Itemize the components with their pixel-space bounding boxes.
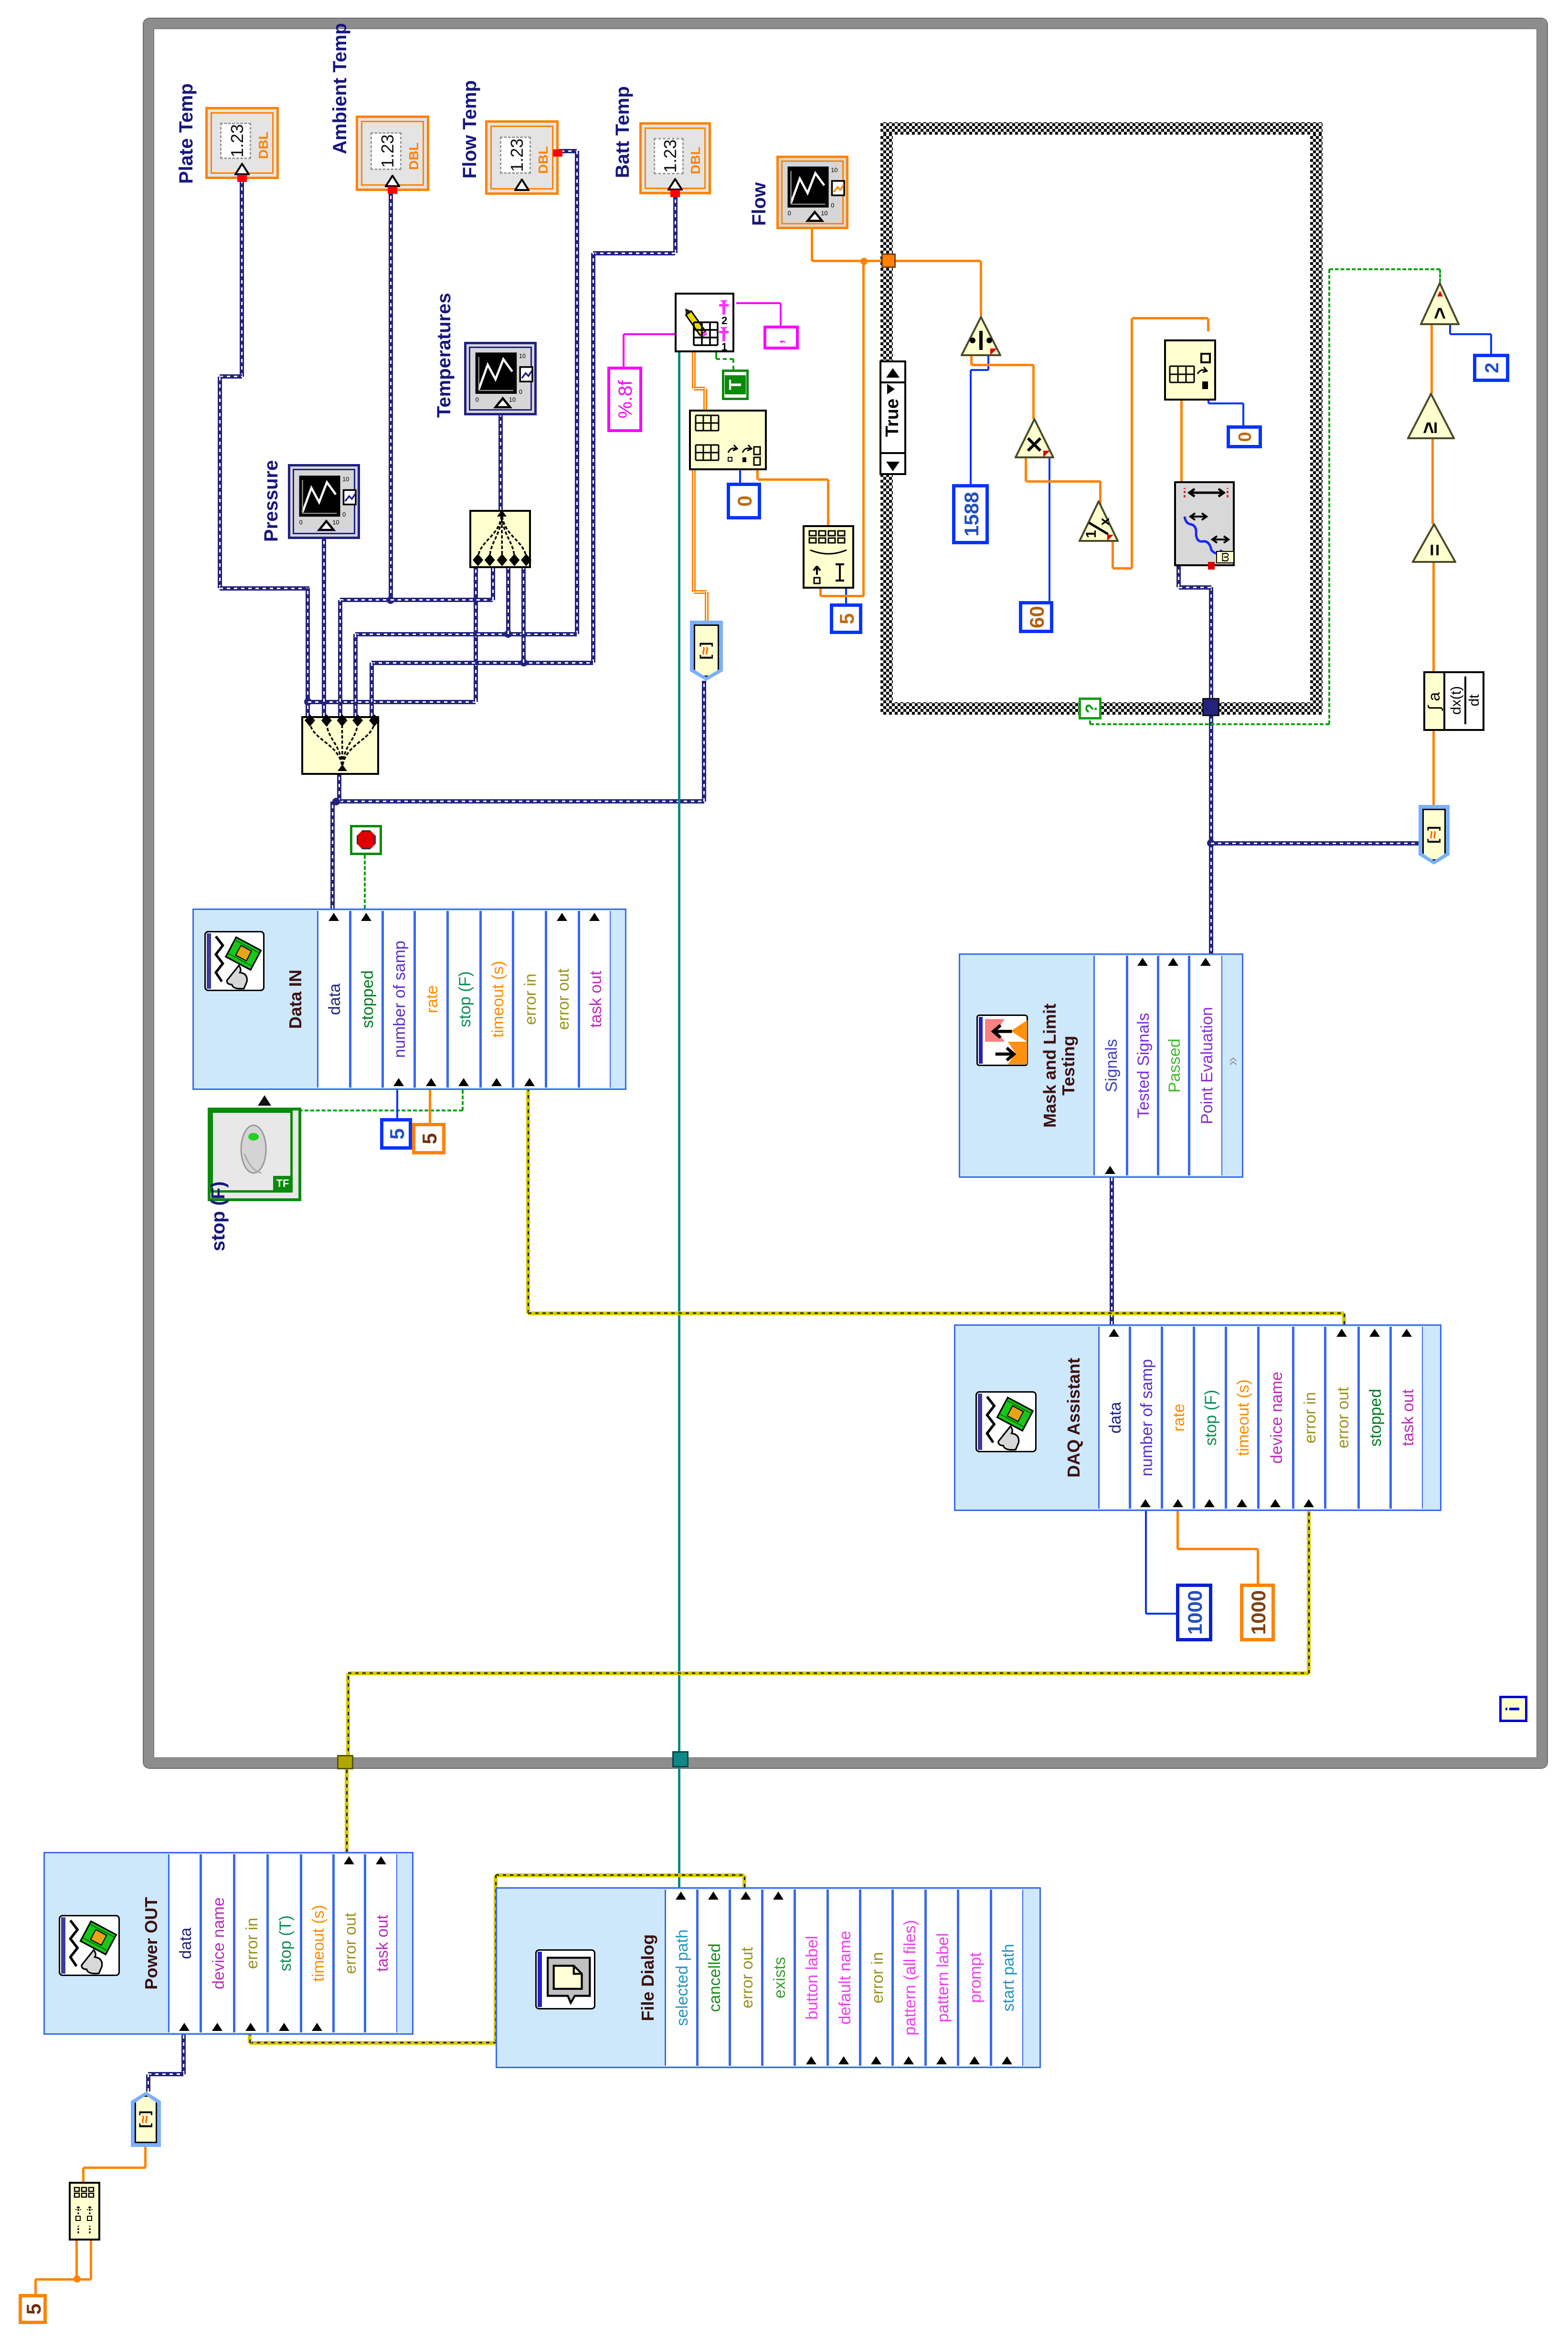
svg-text:10: 10	[342, 476, 349, 483]
svg-text:0: 0	[476, 396, 479, 403]
svg-text:0: 0	[299, 518, 303, 526]
svg-text:0: 0	[519, 388, 522, 395]
svg-text:10: 10	[509, 396, 516, 403]
svg-text:0: 0	[788, 210, 791, 217]
svg-text:0: 0	[831, 202, 834, 209]
svg-text:1: 1	[721, 341, 727, 350]
svg-text:1: 1	[1083, 530, 1099, 538]
svg-text:10: 10	[821, 210, 827, 217]
svg-text:>: >	[1428, 307, 1451, 319]
svg-text:10: 10	[332, 518, 339, 526]
svg-text:0: 0	[342, 511, 346, 518]
svg-text:=: =	[1423, 544, 1446, 556]
svg-text:10: 10	[831, 166, 837, 173]
svg-text:10: 10	[519, 352, 526, 359]
svg-text:≥: ≥	[1418, 422, 1441, 433]
svg-text:2: 2	[721, 315, 727, 327]
svg-text:x: x	[1097, 518, 1112, 526]
